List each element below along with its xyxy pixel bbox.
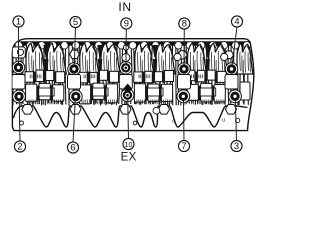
head bolt 7 (179, 92, 188, 101)
callout number 7 (178, 140, 189, 151)
bolt boss 2 (13, 90, 26, 103)
bolt boss 3 (229, 90, 242, 103)
head bolt 1 (14, 63, 23, 72)
exhaust rocker blocks (26, 84, 37, 102)
svg-text:4: 4 (234, 16, 239, 27)
callout number 3 (231, 140, 242, 151)
leader line for bolt 1 (18, 27, 20, 64)
callout number 9 (121, 18, 132, 29)
comb tick rows (28, 75, 224, 105)
svg-text:2: 2 (17, 141, 22, 152)
bottom flange wavy line with port arches (14, 106, 248, 127)
small flange holes (20, 121, 24, 125)
ring on bolt 9 column (122, 54, 130, 62)
leader line for bolt 9 (125, 29, 127, 65)
dark wedges between lobes (43, 45, 49, 58)
head bolt 5 (69, 64, 78, 73)
svg-text:7: 7 (181, 140, 186, 151)
interior engraving texture (13, 43, 249, 106)
intake cam lobes cylinder 2 (80, 43, 99, 74)
partial lobe right end (237, 43, 253, 74)
leader line for bolt 5 (74, 27, 75, 66)
head bolt 6 (71, 92, 80, 101)
head bolt 4 (227, 64, 236, 73)
svg-text:u: u (222, 118, 225, 124)
scallop band below top edge (13, 41, 250, 45)
callout number 6 (67, 142, 78, 153)
dark gaps between rocker blocks (37, 86, 40, 101)
svg-text:c: c (172, 119, 175, 125)
callout number 1 (13, 16, 24, 27)
valve spring rings (174, 53, 181, 60)
svg-text:8: 8 (182, 18, 187, 29)
head bolt 8 (179, 64, 188, 73)
callout number 8 (179, 18, 190, 29)
head bolt 2 (14, 92, 23, 101)
leader line for bolt 6 (73, 93, 76, 142)
bolt boss 10 (121, 89, 134, 102)
leader line for bolt 4 (232, 27, 237, 66)
cam cap column 9 (120, 62, 132, 74)
intake cam lobes cylinder 4 (187, 43, 206, 74)
leader line for bolt 2 (19, 93, 20, 141)
svg-text:10: 10 (125, 140, 133, 149)
cylinder head outer outline (12, 39, 253, 131)
cam cap column 1 (12, 61, 24, 73)
svg-text:3: 3 (234, 140, 239, 151)
callout number 4 (231, 16, 242, 27)
cam cap column 5 (68, 63, 80, 75)
cam cap column 8 (178, 63, 190, 75)
svg-text:6: 6 (70, 142, 75, 153)
lifter/rocker small blocks row (25, 72, 34, 83)
svg-text:5: 5 (73, 16, 78, 27)
leader line for bolt 3 (235, 93, 236, 141)
leader line for bolt 7 (182, 93, 185, 141)
head bolt 10 (123, 91, 132, 100)
dark wedge above bolt 10 (123, 84, 132, 94)
svg-text:9: 9 (124, 18, 129, 29)
svg-text:1: 1 (16, 16, 21, 27)
intake cam lobes cylinder 3 (135, 43, 154, 74)
svg-text:EX: EX (121, 151, 137, 163)
head bolt 3 (230, 92, 239, 101)
bolt boss 7 (177, 90, 190, 103)
callout number 2 (14, 141, 25, 152)
svg-text:IN: IN (118, 0, 131, 14)
flange hex bosses (22, 105, 33, 115)
leader line for bolt 10 (127, 92, 130, 139)
cam cap column 4 (225, 63, 237, 75)
callout number 5 (70, 16, 81, 27)
intake cam lobes cylinder 1 (26, 43, 45, 74)
valve cover scallops (15, 42, 22, 49)
callout number 10 (123, 138, 134, 149)
leader line for bolt 8 (183, 29, 185, 65)
head bolt 9 (121, 63, 130, 72)
dark pockets at lobe bases (44, 59, 48, 72)
bolt boss 6 (69, 90, 82, 103)
